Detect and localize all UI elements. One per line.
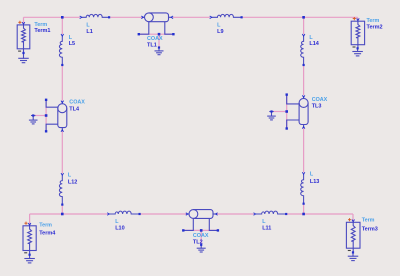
coax TL1 <box>139 13 174 34</box>
node top-right junction <box>302 16 305 19</box>
svg-text:L9: L9 <box>217 29 223 35</box>
wire L12 to bottom node <box>61 206 63 214</box>
svg-text:COAX: COAX <box>312 97 328 103</box>
node bottom-right junction <box>302 213 305 216</box>
ground (Term2) <box>352 48 363 56</box>
svg-text:Term: Term <box>39 222 52 228</box>
wire Term3 rise <box>352 214 354 222</box>
svg-text:L14: L14 <box>309 41 319 47</box>
inductor L1 <box>81 14 109 17</box>
svg-text:COAX: COAX <box>147 36 163 42</box>
wire L1 to TL1 <box>110 16 142 18</box>
svg-text:L10: L10 <box>115 226 124 232</box>
inductor L10 <box>109 211 140 214</box>
wire Term2 drop <box>357 17 359 21</box>
ground (TL3) <box>267 112 276 120</box>
svg-text:COAX: COAX <box>69 99 85 105</box>
ground (Term3) <box>348 252 359 260</box>
wire Term1 drop <box>23 17 25 25</box>
wire L9 to Term2 <box>243 16 358 18</box>
svg-text:COAX: COAX <box>193 233 209 239</box>
wire right node to L14 <box>303 17 305 34</box>
inductor L13 <box>301 174 304 204</box>
wire left node to L5 <box>61 17 63 34</box>
ground (Term4) <box>24 255 34 263</box>
svg-text:L13: L13 <box>310 179 319 185</box>
coax TL2 <box>183 210 218 231</box>
wire outer-conductor TL3 <box>286 95 288 129</box>
wire bottom-left segment <box>30 213 108 215</box>
inductor L14 <box>301 35 304 64</box>
inductor L9 <box>211 14 241 17</box>
wire Term4 rise <box>29 214 31 226</box>
wire L14 to TL3 <box>303 66 305 95</box>
svg-text:L5: L5 <box>69 41 75 47</box>
wire outer-conductor TL2 <box>183 229 218 231</box>
svg-text:L1: L1 <box>86 29 92 35</box>
svg-text:TL4: TL4 <box>69 107 80 113</box>
svg-text:TL2: TL2 <box>193 239 203 245</box>
svg-text:Term1: Term1 <box>34 28 50 34</box>
svg-text:L11: L11 <box>262 225 271 231</box>
ground (TL2) <box>197 245 206 252</box>
svg-text:TL3: TL3 <box>312 104 322 110</box>
ground (TL1) <box>155 48 164 55</box>
wire TL2 to L11 <box>217 213 254 215</box>
svg-text:Term2: Term2 <box>367 25 383 31</box>
node top-left junction <box>61 16 64 19</box>
wire outer-conductor TL1 <box>139 33 174 35</box>
wire L13 to bottom node <box>303 205 305 214</box>
wire outer-conductor TL4 <box>45 100 47 132</box>
node bottom-left junction <box>61 213 64 216</box>
inductor L11 <box>255 211 286 214</box>
coax TL3 <box>287 95 308 129</box>
svg-text:Term4: Term4 <box>39 230 56 236</box>
wire L10 to TL2 <box>141 213 187 215</box>
svg-text:Term: Term <box>367 18 380 24</box>
svg-text:Term: Term <box>34 22 47 28</box>
wire TL1 to L9 <box>173 16 210 18</box>
port Term1 <box>17 25 30 53</box>
coax TL4 <box>46 100 67 132</box>
ground (Term1) <box>18 53 29 63</box>
svg-text:Term: Term <box>362 218 375 224</box>
port Term2 <box>351 21 364 49</box>
svg-text:L12: L12 <box>68 180 77 186</box>
wire TL3 to L13 <box>303 128 305 172</box>
wire TL4 to L12 <box>61 130 63 173</box>
wire top-left segment <box>24 16 80 18</box>
ground (TL4) <box>29 116 38 124</box>
wire L11 to Term3 <box>287 213 353 215</box>
port Term4 <box>23 226 36 255</box>
wire L5 to TL4 <box>61 66 63 101</box>
inductor L12 <box>59 175 62 205</box>
svg-text:Term3: Term3 <box>362 226 378 232</box>
svg-text:TL1: TL1 <box>147 43 157 49</box>
port Term3 <box>346 222 360 252</box>
inductor L5 <box>59 35 62 64</box>
